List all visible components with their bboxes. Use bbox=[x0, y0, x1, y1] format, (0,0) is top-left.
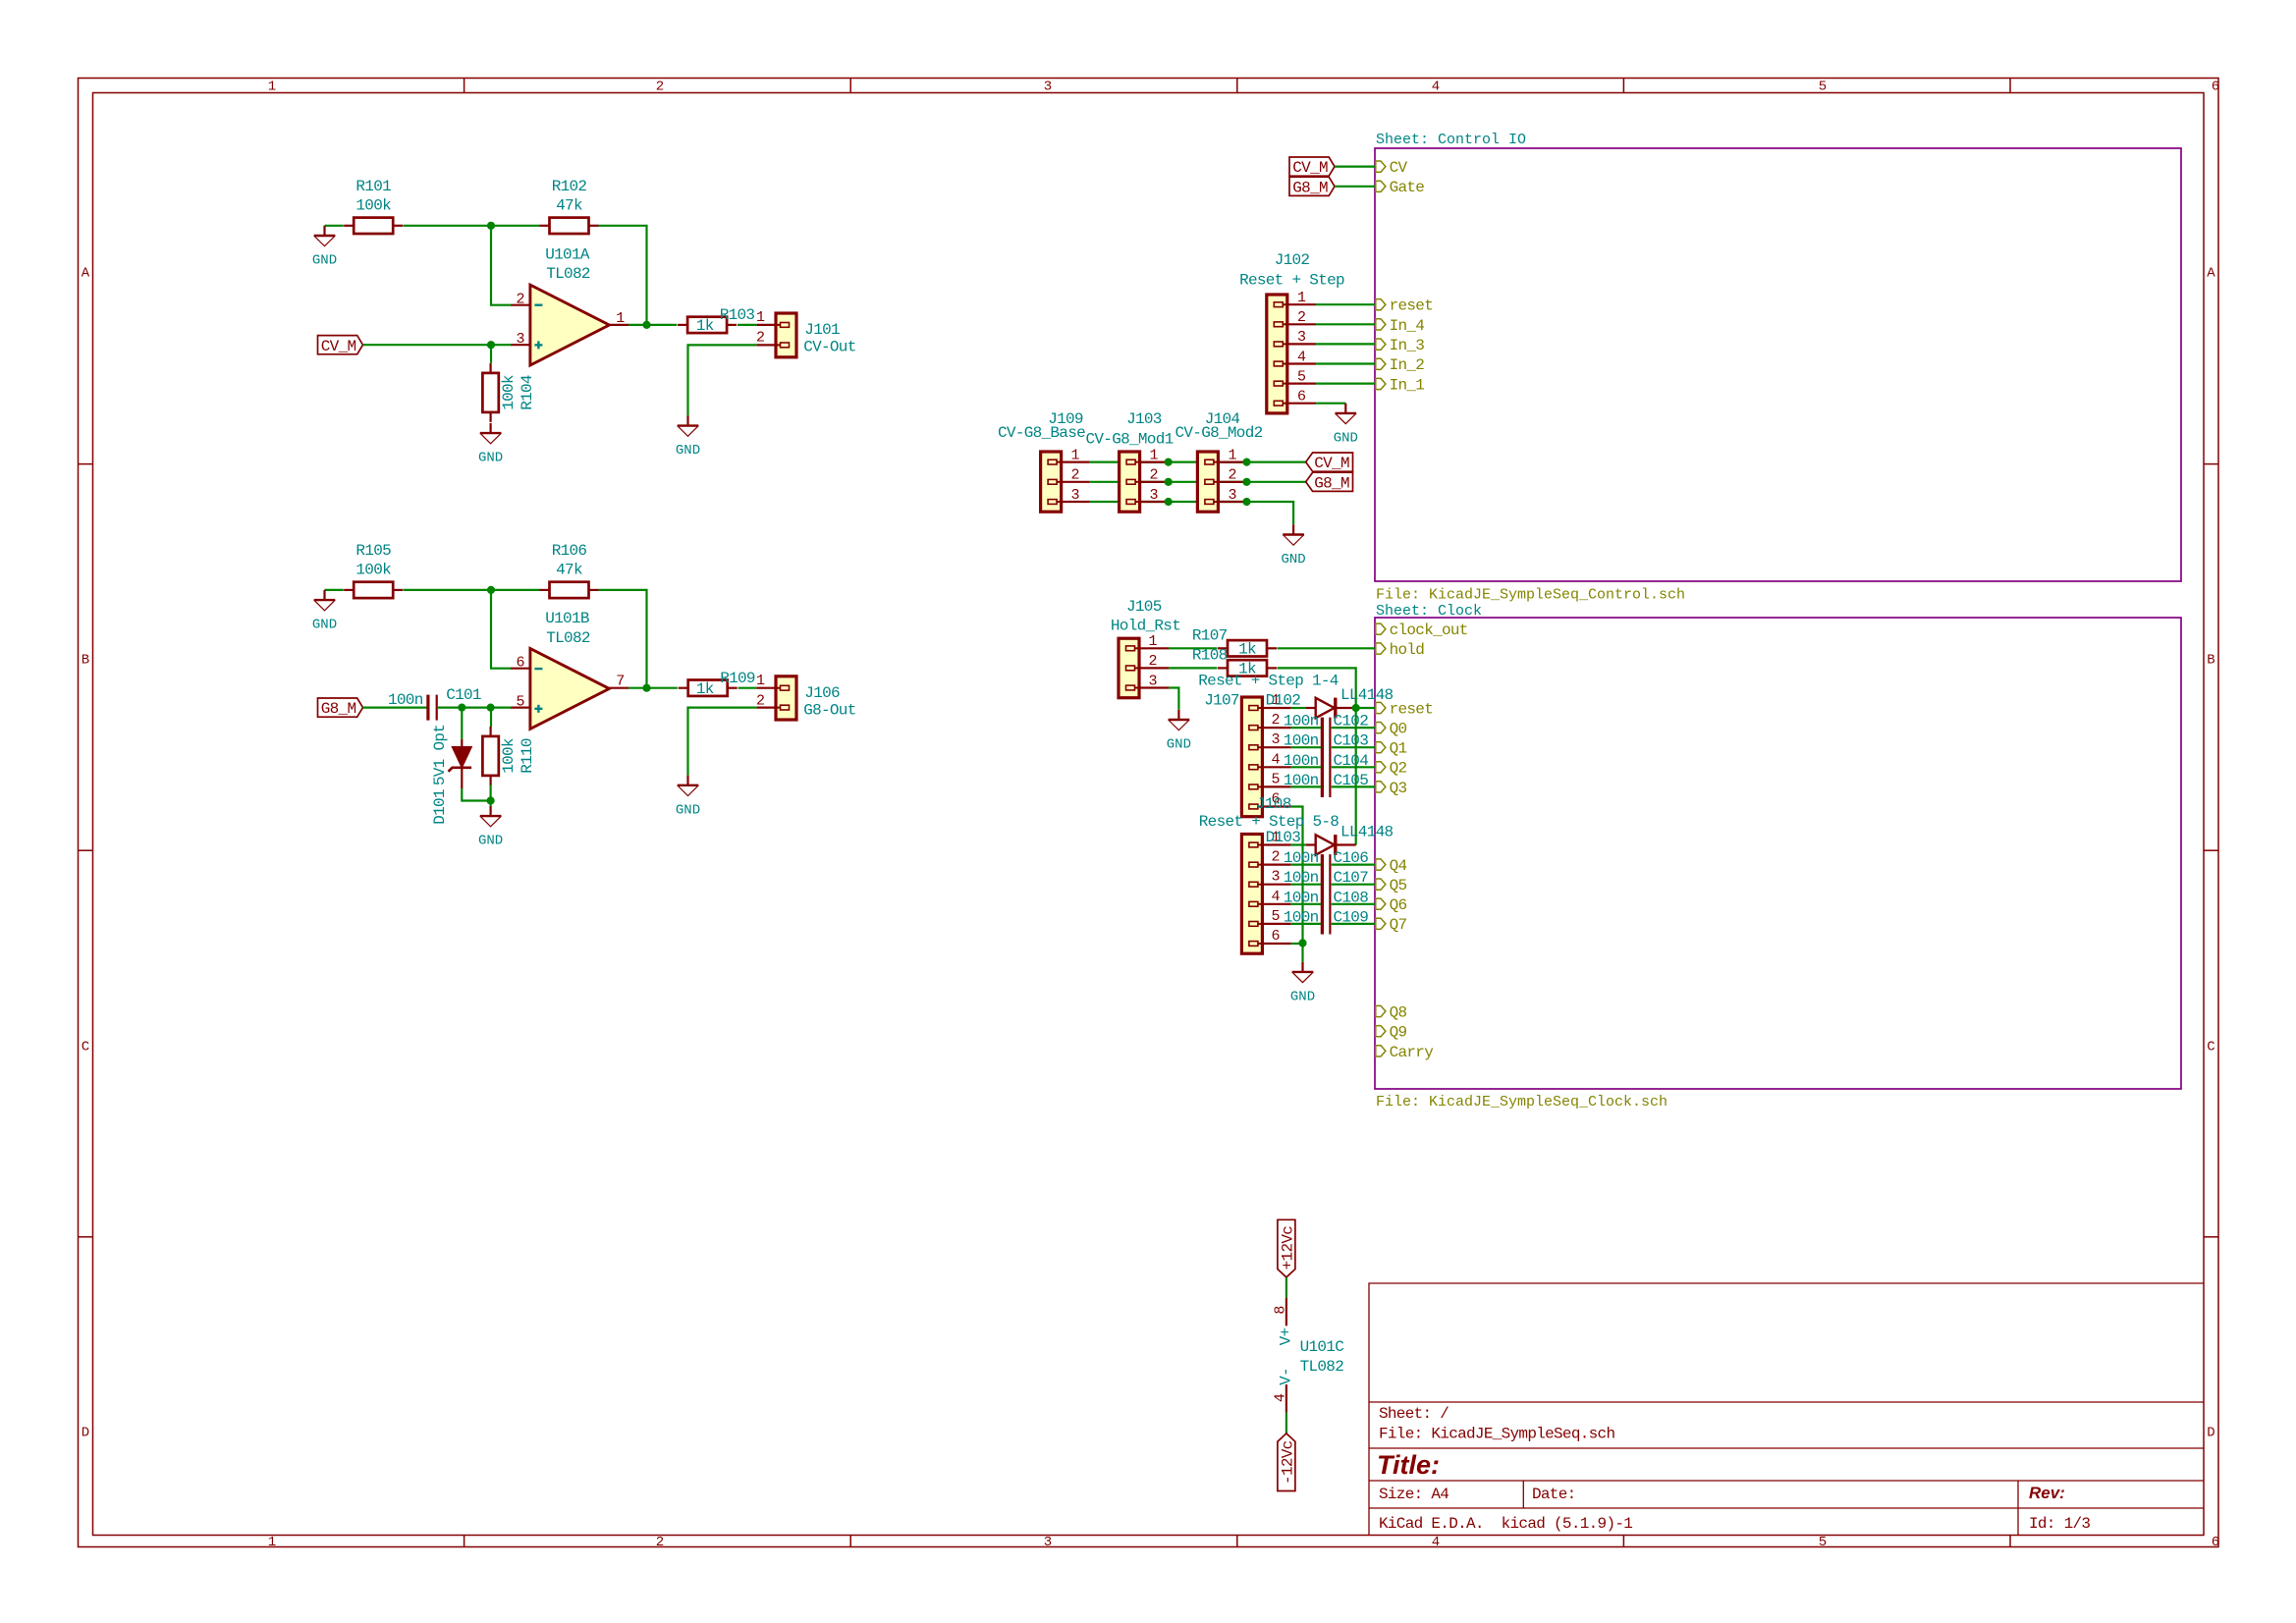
wire bbox=[1291, 766, 1321, 768]
svg-text:Q9: Q9 bbox=[1390, 1024, 1407, 1042]
wire bbox=[362, 344, 512, 346]
svg-text:GND: GND bbox=[676, 802, 700, 818]
svg-text:In_2: In_2 bbox=[1390, 356, 1425, 374]
wire bbox=[1291, 746, 1321, 748]
svg-text:3: 3 bbox=[1228, 487, 1236, 504]
svg-text:1: 1 bbox=[1148, 633, 1157, 650]
sheet pin Q2 bbox=[1376, 760, 1407, 778]
junction bbox=[487, 222, 495, 230]
svg-text:G8_M: G8_M bbox=[1314, 474, 1349, 492]
svg-text:100k: 100k bbox=[500, 738, 518, 774]
wire bbox=[1316, 323, 1375, 325]
wire bbox=[325, 225, 344, 227]
wire bbox=[1090, 481, 1307, 483]
svg-text:A: A bbox=[2207, 266, 2215, 282]
svg-text:100k: 100k bbox=[355, 562, 391, 579]
svg-text:3: 3 bbox=[1044, 80, 1052, 95]
svg-text:3: 3 bbox=[1149, 487, 1158, 504]
svg-text:2: 2 bbox=[756, 330, 765, 347]
wire bbox=[599, 226, 647, 325]
svg-text:reset: reset bbox=[1390, 700, 1434, 718]
svg-text:TL082: TL082 bbox=[546, 265, 590, 283]
wire bbox=[1316, 383, 1375, 385]
wire bbox=[362, 706, 426, 708]
ground bbox=[676, 415, 700, 459]
svg-text:2: 2 bbox=[656, 1535, 664, 1550]
connector J109 bbox=[998, 410, 1090, 512]
wire bbox=[1278, 647, 1376, 649]
svg-text:CV-G8_Base: CV-G8_Base bbox=[998, 424, 1085, 442]
ground bbox=[312, 226, 337, 269]
ground bbox=[1334, 404, 1358, 447]
wire bbox=[1335, 186, 1375, 188]
sheet pin hold bbox=[1376, 641, 1425, 659]
svg-text:3: 3 bbox=[1271, 731, 1280, 748]
svg-text:CV: CV bbox=[1390, 159, 1408, 177]
wire bbox=[1291, 843, 1306, 845]
wire bbox=[1291, 923, 1321, 925]
svg-text:7: 7 bbox=[616, 674, 625, 690]
wire bbox=[1291, 943, 1303, 945]
svg-text:2: 2 bbox=[1070, 467, 1079, 484]
svg-text:1: 1 bbox=[756, 673, 765, 689]
svg-text:6: 6 bbox=[2212, 1535, 2219, 1550]
svg-text:2: 2 bbox=[1148, 653, 1157, 670]
svg-text:1k: 1k bbox=[696, 680, 714, 698]
junction bbox=[1165, 478, 1173, 486]
wire bbox=[1332, 863, 1375, 865]
svg-text:5: 5 bbox=[1271, 908, 1280, 925]
wire bbox=[1291, 707, 1306, 709]
wire bbox=[1332, 923, 1375, 925]
wire bbox=[490, 345, 492, 363]
junction bbox=[487, 586, 495, 594]
wire bbox=[1291, 884, 1321, 886]
junction bbox=[1165, 459, 1173, 466]
resistor R110 bbox=[482, 727, 536, 785]
capacitors C102-C105 bbox=[1284, 713, 1368, 797]
wire bbox=[1291, 863, 1321, 865]
sheet pin Q1 bbox=[1376, 740, 1407, 758]
svg-text:2: 2 bbox=[1271, 712, 1280, 729]
ground bbox=[676, 776, 700, 819]
sheet pin Q6 bbox=[1376, 896, 1407, 914]
svg-text:J107: J107 bbox=[1204, 691, 1239, 709]
svg-text:hold: hold bbox=[1390, 641, 1425, 659]
global label CV_M bbox=[1306, 453, 1353, 472]
op-amp U101A bbox=[511, 245, 629, 365]
sheet pin reset bbox=[1376, 298, 1433, 315]
junction bbox=[487, 704, 495, 712]
svg-text:KiCad E.D.A. kicad (5.1.9)-1: KiCad E.D.A. kicad (5.1.9)-1 bbox=[1379, 1515, 1632, 1533]
svg-text:GND: GND bbox=[1334, 431, 1358, 447]
wire bbox=[1332, 766, 1375, 768]
svg-text:D102: D102 bbox=[1266, 691, 1301, 709]
svg-text:1: 1 bbox=[1297, 290, 1306, 306]
svg-text:5V1 Opt: 5V1 Opt bbox=[431, 725, 449, 785]
svg-text:Q7: Q7 bbox=[1390, 916, 1407, 934]
resistor R103 bbox=[678, 306, 754, 335]
svg-text:3: 3 bbox=[1148, 673, 1157, 689]
wire bbox=[1332, 884, 1375, 886]
svg-text:CV_M: CV_M bbox=[321, 338, 356, 355]
sheet pin Q8 bbox=[1376, 1003, 1407, 1021]
svg-text:Gate: Gate bbox=[1390, 179, 1425, 196]
wire bbox=[1332, 785, 1375, 787]
junction bbox=[487, 796, 495, 804]
svg-text:2: 2 bbox=[516, 291, 524, 307]
capacitor C101 bbox=[388, 686, 481, 721]
junction bbox=[1242, 498, 1250, 506]
wire bbox=[1332, 727, 1375, 729]
svg-text:1: 1 bbox=[1070, 447, 1079, 463]
svg-text:reset: reset bbox=[1390, 298, 1434, 315]
svg-text:Q1: Q1 bbox=[1390, 740, 1407, 758]
sheet pin Q0 bbox=[1376, 721, 1407, 738]
svg-text:4: 4 bbox=[1271, 751, 1280, 768]
junction bbox=[1298, 939, 1306, 947]
svg-text:GND: GND bbox=[676, 443, 700, 459]
svg-text:Sheet: Control IO: Sheet: Control IO bbox=[1376, 132, 1526, 148]
sheet pin In_2 bbox=[1376, 356, 1425, 374]
svg-text:R109: R109 bbox=[720, 670, 755, 687]
resistor R105 bbox=[344, 542, 403, 598]
wire bbox=[1291, 807, 1303, 944]
svg-text:R110: R110 bbox=[519, 738, 536, 774]
svg-text:Date:: Date: bbox=[1532, 1486, 1576, 1503]
ground bbox=[312, 590, 337, 633]
svg-text:Size: A4: Size: A4 bbox=[1379, 1486, 1449, 1503]
svg-text:Q6: Q6 bbox=[1390, 896, 1407, 914]
wire bbox=[738, 687, 757, 689]
svg-text:2: 2 bbox=[656, 80, 664, 95]
svg-text:J102: J102 bbox=[1275, 251, 1310, 269]
wire bbox=[438, 706, 512, 708]
wire bbox=[490, 785, 492, 806]
svg-text:GND: GND bbox=[1281, 552, 1305, 568]
svg-text:4: 4 bbox=[1272, 1393, 1288, 1402]
sheet pin Q5 bbox=[1376, 877, 1407, 894]
svg-text:1k: 1k bbox=[696, 317, 714, 335]
svg-text:4: 4 bbox=[1432, 80, 1440, 95]
resistor R108 bbox=[1192, 647, 1277, 678]
svg-text:GND: GND bbox=[1167, 737, 1191, 753]
junction bbox=[1165, 498, 1173, 506]
svg-text:Q4: Q4 bbox=[1390, 857, 1407, 875]
op-amp U101B bbox=[511, 610, 629, 729]
svg-text:Q2: Q2 bbox=[1390, 760, 1407, 778]
wire bbox=[599, 590, 647, 688]
svg-text:5: 5 bbox=[1297, 368, 1306, 385]
connector J104 bbox=[1175, 410, 1262, 512]
sheet pin CV bbox=[1376, 159, 1408, 177]
zener diode D101 bbox=[431, 725, 471, 825]
wire bbox=[1301, 944, 1303, 962]
svg-text:3: 3 bbox=[1297, 329, 1306, 346]
sheet pin Gate bbox=[1376, 179, 1425, 196]
svg-text:LL4148: LL4148 bbox=[1340, 823, 1394, 840]
wire bbox=[688, 345, 757, 415]
svg-text:CV-G8_Mod2: CV-G8_Mod2 bbox=[1175, 424, 1262, 442]
svg-text:J108: J108 bbox=[1256, 795, 1291, 813]
svg-text:R104: R104 bbox=[519, 375, 536, 410]
svg-text:CV_M: CV_M bbox=[1314, 455, 1349, 472]
op-amp power U101C bbox=[1272, 1298, 1343, 1413]
connector J102 bbox=[1239, 251, 1344, 413]
svg-text:D: D bbox=[2207, 1426, 2214, 1441]
junction bbox=[642, 684, 650, 692]
resistor R107 bbox=[1192, 627, 1277, 659]
wire bbox=[1332, 903, 1375, 905]
wire bbox=[1316, 362, 1375, 364]
svg-text:LL4148: LL4148 bbox=[1340, 686, 1394, 704]
connector J108 bbox=[1199, 795, 1339, 953]
svg-text:1: 1 bbox=[268, 80, 276, 95]
junction bbox=[1242, 459, 1250, 466]
global label CV_M bbox=[318, 336, 363, 355]
power flag +12Vc bbox=[1278, 1219, 1297, 1277]
junction bbox=[642, 321, 650, 329]
diode D102 bbox=[1266, 686, 1394, 719]
svg-text:Q0: Q0 bbox=[1390, 721, 1407, 738]
wire bbox=[1278, 668, 1356, 844]
svg-text:GND: GND bbox=[1290, 990, 1315, 1005]
svg-text:C: C bbox=[82, 1040, 89, 1055]
svg-text:3: 3 bbox=[1070, 487, 1079, 504]
wire bbox=[1291, 785, 1321, 787]
svg-text:J103: J103 bbox=[1126, 410, 1162, 428]
svg-text:6: 6 bbox=[2212, 80, 2219, 95]
wire bbox=[1335, 166, 1375, 168]
svg-text:V-: V- bbox=[1278, 1368, 1295, 1385]
svg-text:C101: C101 bbox=[446, 686, 481, 704]
global label G8_M bbox=[1306, 472, 1353, 492]
resistor R104 bbox=[482, 363, 536, 422]
sheet pin In_4 bbox=[1376, 317, 1425, 335]
wire bbox=[1291, 727, 1321, 729]
svg-text:J105: J105 bbox=[1126, 598, 1162, 616]
sheet pin Q7 bbox=[1376, 916, 1407, 934]
svg-text:B: B bbox=[2207, 653, 2214, 669]
svg-text:2: 2 bbox=[1271, 849, 1280, 866]
resistor R102 bbox=[540, 178, 599, 234]
svg-text:C: C bbox=[2207, 1040, 2214, 1055]
wire bbox=[1285, 1277, 1287, 1298]
svg-text:G8_M: G8_M bbox=[321, 700, 356, 718]
svg-text:Q5: Q5 bbox=[1390, 877, 1407, 894]
wire bbox=[688, 708, 757, 776]
ground bbox=[1281, 524, 1305, 568]
svg-text:D103: D103 bbox=[1266, 829, 1301, 846]
wire bbox=[1316, 343, 1375, 345]
svg-text:In_3: In_3 bbox=[1390, 337, 1425, 354]
svg-text:1: 1 bbox=[616, 310, 625, 327]
svg-text:47k: 47k bbox=[556, 562, 582, 579]
svg-text:3: 3 bbox=[516, 331, 524, 348]
svg-text:-12Vc: -12Vc bbox=[1280, 1440, 1297, 1485]
svg-text:Sheet: Clock: Sheet: Clock bbox=[1376, 603, 1482, 620]
resistor R106 bbox=[540, 542, 599, 598]
svg-text:J101: J101 bbox=[804, 321, 840, 339]
wire bbox=[1356, 707, 1375, 709]
wire bbox=[1169, 647, 1217, 649]
svg-text:TL082: TL082 bbox=[1300, 1358, 1344, 1376]
svg-text:File: KicadJE_SympleSeq_Contro: File: KicadJE_SympleSeq_Control.sch bbox=[1376, 587, 1685, 604]
junction bbox=[1352, 704, 1360, 712]
svg-text:TL082: TL082 bbox=[546, 629, 590, 647]
svg-text:R101: R101 bbox=[355, 178, 391, 195]
svg-text:G8-Out: G8-Out bbox=[803, 701, 855, 719]
connector J103 bbox=[1085, 410, 1173, 512]
svg-text:R106: R106 bbox=[552, 542, 587, 560]
svg-text:+12Vc: +12Vc bbox=[1280, 1226, 1297, 1271]
svg-text:Carry: Carry bbox=[1390, 1044, 1435, 1061]
svg-text:100k: 100k bbox=[500, 375, 518, 410]
svg-text:Reset + Step 1-4: Reset + Step 1-4 bbox=[1198, 673, 1339, 690]
svg-text:GND: GND bbox=[312, 253, 337, 269]
svg-text:In_1: In_1 bbox=[1390, 376, 1425, 394]
resistor R109 bbox=[679, 670, 755, 698]
wire bbox=[1090, 461, 1307, 463]
svg-text:CV-Out: CV-Out bbox=[803, 339, 855, 356]
svg-text:5: 5 bbox=[516, 693, 524, 710]
svg-text:CV_M: CV_M bbox=[1292, 159, 1328, 177]
junction bbox=[487, 341, 495, 349]
wire bbox=[404, 225, 540, 227]
svg-text:U101B: U101B bbox=[545, 610, 589, 627]
svg-text:1: 1 bbox=[1149, 447, 1158, 463]
hierarchical sheet Clock bbox=[1375, 603, 2181, 1110]
sheet pin In_1 bbox=[1376, 376, 1425, 394]
wire bbox=[1316, 303, 1375, 305]
svg-text:G8_M: G8_M bbox=[1292, 179, 1328, 196]
wire bbox=[738, 324, 757, 326]
ground bbox=[478, 806, 503, 849]
svg-text:2: 2 bbox=[1228, 467, 1236, 484]
svg-text:B: B bbox=[82, 653, 89, 669]
wire bbox=[461, 708, 463, 739]
ground bbox=[478, 423, 503, 466]
svg-text:GND: GND bbox=[478, 451, 503, 466]
svg-text:U101C: U101C bbox=[1300, 1338, 1344, 1356]
wire bbox=[1169, 688, 1178, 710]
svg-text:R103: R103 bbox=[720, 306, 755, 324]
wire bbox=[1090, 502, 1293, 524]
svg-text:4: 4 bbox=[1432, 1535, 1440, 1550]
svg-text:Q3: Q3 bbox=[1390, 780, 1407, 797]
sheet pin In_3 bbox=[1376, 337, 1425, 354]
wire bbox=[629, 687, 678, 689]
svg-text:2: 2 bbox=[1149, 467, 1158, 484]
svg-text:Rev:: Rev: bbox=[2029, 1484, 2065, 1502]
global label CV_M bbox=[1289, 157, 1335, 177]
ground bbox=[1167, 710, 1191, 753]
wire bbox=[491, 226, 512, 305]
connector J106 bbox=[756, 673, 856, 720]
wire bbox=[1316, 403, 1345, 405]
svg-text:R105: R105 bbox=[355, 542, 391, 560]
svg-text:A: A bbox=[82, 266, 90, 282]
wire bbox=[1285, 1413, 1287, 1434]
svg-text:2: 2 bbox=[1297, 309, 1306, 326]
connector J101 bbox=[756, 309, 856, 357]
svg-text:100k: 100k bbox=[355, 197, 391, 215]
power flag -12Vc bbox=[1278, 1434, 1297, 1491]
global label G8_M bbox=[318, 698, 363, 718]
wire bbox=[629, 324, 677, 326]
svg-text:4: 4 bbox=[1297, 349, 1306, 365]
wire bbox=[1291, 903, 1321, 905]
global label G8_M bbox=[1289, 177, 1335, 196]
ground bbox=[1290, 962, 1315, 1005]
sheet pin Q3 bbox=[1376, 780, 1407, 797]
hierarchical sheet Control IO bbox=[1375, 132, 2181, 604]
svg-text:1: 1 bbox=[1228, 447, 1236, 463]
connector J107 bbox=[1198, 673, 1339, 817]
sheet pin Carry bbox=[1376, 1044, 1434, 1061]
svg-text:D: D bbox=[82, 1426, 89, 1441]
svg-text:R108: R108 bbox=[1192, 647, 1228, 665]
svg-text:3: 3 bbox=[1044, 1535, 1052, 1550]
svg-text:Reset + Step: Reset + Step bbox=[1239, 272, 1344, 290]
svg-text:5: 5 bbox=[1819, 1535, 1827, 1550]
wire bbox=[1332, 746, 1375, 748]
wire bbox=[325, 589, 344, 591]
svg-text:4: 4 bbox=[1271, 889, 1280, 905]
capacitors C106-C109 bbox=[1284, 849, 1368, 934]
svg-text:In_4: In_4 bbox=[1390, 317, 1425, 335]
svg-text:6: 6 bbox=[1297, 389, 1306, 406]
wire bbox=[490, 708, 492, 728]
diode D103 bbox=[1266, 823, 1394, 855]
svg-text:V+: V+ bbox=[1278, 1328, 1295, 1346]
resistor R101 bbox=[344, 178, 403, 234]
svg-text:Q8: Q8 bbox=[1390, 1003, 1407, 1021]
svg-text:8: 8 bbox=[1272, 1306, 1288, 1315]
svg-text:File: KicadJE_SympleSeq.sch: File: KicadJE_SympleSeq.sch bbox=[1379, 1426, 1614, 1443]
sheet pin clock_out bbox=[1376, 622, 1468, 639]
svg-text:CV-G8_Mod1: CV-G8_Mod1 bbox=[1085, 430, 1173, 448]
connector J105 bbox=[1111, 598, 1180, 698]
svg-text:47k: 47k bbox=[556, 197, 582, 215]
sheet pin Q4 bbox=[1376, 857, 1407, 875]
svg-text:Id: 1/3: Id: 1/3 bbox=[2029, 1515, 2090, 1533]
svg-text:Title:: Title: bbox=[1377, 1450, 1440, 1480]
svg-text:3: 3 bbox=[1271, 869, 1280, 886]
svg-text:clock_out: clock_out bbox=[1390, 622, 1468, 639]
wire bbox=[462, 788, 490, 801]
svg-text:Hold_Rst: Hold_Rst bbox=[1111, 618, 1180, 635]
svg-text:File: KicadJE_SympleSeq_Clock.: File: KicadJE_SympleSeq_Clock.sch bbox=[1376, 1094, 1667, 1110]
svg-text:R102: R102 bbox=[552, 178, 587, 195]
svg-text:6: 6 bbox=[516, 654, 524, 671]
svg-text:100n: 100n bbox=[388, 691, 423, 709]
svg-text:5: 5 bbox=[1819, 80, 1827, 95]
svg-text:2: 2 bbox=[756, 692, 765, 709]
svg-text:GND: GND bbox=[312, 618, 337, 633]
svg-text:1k: 1k bbox=[1238, 641, 1256, 659]
svg-text:1: 1 bbox=[756, 309, 765, 326]
svg-text:D101: D101 bbox=[431, 789, 449, 825]
svg-text:1: 1 bbox=[268, 1535, 276, 1550]
svg-text:5: 5 bbox=[1271, 771, 1280, 787]
wire bbox=[491, 590, 512, 669]
svg-text:U101A: U101A bbox=[545, 245, 590, 263]
wire bbox=[1169, 667, 1217, 669]
svg-text:GND: GND bbox=[478, 834, 503, 849]
wire bbox=[404, 589, 540, 591]
svg-text:Sheet: /: Sheet: / bbox=[1379, 1405, 1449, 1423]
